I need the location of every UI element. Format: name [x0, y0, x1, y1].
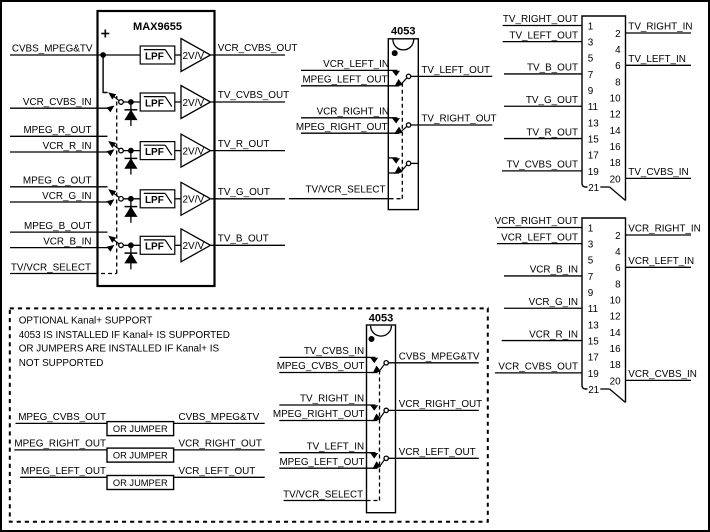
- node junction ch5: [129, 243, 134, 248]
- diode D3 clamp: [130, 199, 132, 223]
- wire top throw input switch U2S2: [301, 117, 397, 119]
- svg-text:8: 8: [615, 279, 621, 290]
- svg-text:MPEG_CVBS_OUT: MPEG_CVBS_OUT: [18, 412, 106, 423]
- amplifier A2 2V/V: [181, 86, 211, 119]
- svg-text:4053: 4053: [369, 313, 393, 325]
- switch U3S1 top throw arrow: [371, 358, 377, 362]
- svg-text:MPEG_LEFT_OUT: MPEG_LEFT_OUT: [21, 466, 106, 477]
- wire CVBS_MPEG&TV input: [10, 54, 140, 56]
- svg-text:4: 4: [615, 247, 621, 258]
- wire TV_R_OUT to J1 pin 15: [504, 138, 582, 140]
- switch U3S2 bottom throw arrow: [373, 414, 380, 420]
- wire VCR_RIGHT_OUT to J2 pin 1: [497, 227, 582, 229]
- svg-text:MPEG_RIGHT_OUT: MPEG_RIGHT_OUT: [273, 409, 365, 420]
- svg-text:TV_LEFT_IN: TV_LEFT_IN: [628, 54, 686, 65]
- IC U3 pin1 dot: [369, 337, 374, 342]
- wire TV/VCR_SELECT U1: [10, 273, 94, 275]
- svg-text:19: 19: [588, 369, 599, 380]
- svg-text:14: 14: [610, 126, 621, 137]
- wire VCR_B_IN: [10, 247, 112, 249]
- amplifier A4 2V/V: [181, 182, 211, 215]
- switch S3 pole circle: [119, 148, 124, 153]
- svg-text:VCR_G_IN: VCR_G_IN: [42, 191, 91, 202]
- wire bottom throw input switch U3S2: [279, 420, 377, 422]
- svg-text:TV_LEFT_OUT: TV_LEFT_OUT: [509, 30, 578, 41]
- svg-text:4: 4: [615, 45, 621, 56]
- low-pass filter LPF4: [140, 190, 175, 208]
- svg-text:TV_G_OUT: TV_G_OUT: [526, 95, 578, 106]
- wire CVBS_MPEG&TV from jumper JP1: [174, 422, 265, 424]
- wire bottom throw input switch U3S3: [279, 467, 377, 469]
- svg-text:MPEG_CVBS_OUT: MPEG_CVBS_OUT: [277, 361, 365, 372]
- IC U3 notch semicircle: [371, 326, 392, 336]
- wire bottom throw input switch U2S2: [301, 132, 399, 134]
- svg-text:VCR_B_IN: VCR_B_IN: [43, 236, 91, 247]
- wire VCR_B_IN to J2 pin 7: [504, 275, 582, 277]
- svg-text:VCR_CVBS_IN: VCR_CVBS_IN: [628, 369, 697, 380]
- amplifier A1 2V/V: [181, 39, 211, 72]
- svg-text:VCR_LEFT_IN: VCR_LEFT_IN: [323, 59, 389, 70]
- switch U3S1 bottom throw arrow: [373, 367, 380, 373]
- wire output TV_G_OUT: [211, 198, 285, 200]
- wire MPEG_R_OUT: [10, 135, 108, 137]
- switch U3S3 top throw arrow: [371, 454, 377, 458]
- wire output TV_CVBS_OUT: [211, 101, 285, 103]
- switch U2S3 top throw arrow: [393, 159, 399, 163]
- switch U3S3 pole line: [380, 460, 384, 466]
- svg-text:6: 6: [615, 263, 621, 274]
- svg-text:MPEG_B_OUT: MPEG_B_OUT: [24, 221, 92, 232]
- switch U2S2 pole line: [402, 126, 407, 130]
- node junction ch4: [129, 196, 134, 201]
- svg-text:TV_LEFT_IN: TV_LEFT_IN: [307, 441, 365, 452]
- svg-text:7: 7: [588, 70, 594, 81]
- wire MPEG_B_OUT: [10, 231, 108, 233]
- wire VCR_CVBS_IN: [10, 107, 112, 109]
- svg-text:9: 9: [588, 86, 594, 97]
- switch U3S1 pole circle: [384, 361, 388, 365]
- wire switch S4 pole to node: [123, 198, 140, 200]
- low-pass filter LPF2: [140, 93, 175, 111]
- wire top throw input switch U2S1: [301, 69, 397, 71]
- jumper JP3 OR JUMPER box: [107, 476, 174, 490]
- svg-text:6: 6: [615, 61, 621, 72]
- wire TV_LEFT_IN from J1 pin 6: [626, 64, 692, 66]
- switch S5 pole circle: [119, 243, 124, 248]
- control dashed line U1 select: [94, 273, 117, 275]
- svg-text:1: 1: [588, 223, 594, 234]
- wire VCR_RIGHT_OUT from jumper JP2: [174, 449, 265, 451]
- low-pass filter LPF3: [140, 142, 175, 160]
- svg-text:5: 5: [588, 256, 594, 267]
- wire bottom throw input switch U3S1: [279, 372, 377, 374]
- svg-text:LPF: LPF: [145, 195, 164, 206]
- svg-text:VCR_RIGHT_OUT: VCR_RIGHT_OUT: [179, 439, 262, 450]
- svg-text:15: 15: [588, 134, 599, 145]
- wire VCR_G_IN: [10, 201, 112, 203]
- svg-text:VCR_CVBS_IN: VCR_CVBS_IN: [23, 97, 92, 108]
- svg-text:TV_G_OUT: TV_G_OUT: [218, 187, 270, 198]
- svg-text:TV_RIGHT_IN: TV_RIGHT_IN: [300, 394, 364, 405]
- svg-text:13: 13: [588, 320, 599, 331]
- switch U2S1 pole circle: [406, 74, 410, 78]
- svg-text:VCR_LEFT_OUT: VCR_LEFT_OUT: [399, 447, 476, 458]
- switch U2S3 bottom throw arrow: [395, 167, 402, 173]
- svg-text:TV_RIGHT_IN: TV_RIGHT_IN: [628, 22, 692, 33]
- wire top throw input switch U3S2: [279, 404, 375, 406]
- svg-text:15: 15: [588, 336, 599, 347]
- node junction ch2: [129, 100, 134, 105]
- switch S2 bottom throw arrow: [107, 106, 113, 111]
- svg-text:TV_R_OUT: TV_R_OUT: [526, 127, 578, 138]
- switch U2S1 top throw arrow: [393, 71, 399, 75]
- switch U2S2 top throw arrow: [393, 119, 399, 123]
- svg-text:NOT SUPPORTED: NOT SUPPORTED: [19, 358, 104, 369]
- switch U3S2 pole line: [380, 412, 384, 418]
- connector J2 outline: [582, 218, 626, 403]
- wire LPF3 to amplifier A3: [175, 150, 181, 152]
- wire drop from CVBS junction to switch S2: [103, 55, 107, 93]
- switch U3S3 pole circle: [384, 456, 388, 460]
- svg-text:TV_RIGHT_OUT: TV_RIGHT_OUT: [503, 14, 578, 25]
- svg-text:VCR_LEFT_IN: VCR_LEFT_IN: [628, 256, 694, 267]
- wire TV_G_OUT to J1 pin 11: [504, 105, 582, 107]
- svg-text:VCR_CVBS_OUT: VCR_CVBS_OUT: [498, 362, 578, 373]
- svg-text:MAX9655: MAX9655: [133, 21, 182, 33]
- svg-text:5: 5: [588, 54, 594, 65]
- jumper JP2 OR JUMPER box: [107, 448, 174, 462]
- svg-text:12: 12: [610, 312, 621, 323]
- IC U2 4053 body: [388, 39, 418, 210]
- svg-text:21: 21: [588, 183, 599, 194]
- svg-text:TV/VCR_SELECT: TV/VCR_SELECT: [283, 490, 363, 501]
- svg-text:2V/V: 2V/V: [183, 146, 205, 157]
- wire TV_LEFT_OUT to J1 pin 3: [503, 41, 582, 43]
- low-pass filter LPF1: [140, 46, 175, 64]
- svg-text:9: 9: [588, 288, 594, 299]
- svg-text:MPEG_RIGHT_OUT: MPEG_RIGHT_OUT: [296, 122, 388, 133]
- switch S5 pole line to top throw: [112, 238, 120, 244]
- svg-text:VCR_R_IN: VCR_R_IN: [43, 141, 92, 152]
- wire TV_RIGHT_IN from J1 pin 2: [626, 32, 692, 34]
- svg-text:VCR_LEFT_OUT: VCR_LEFT_OUT: [501, 232, 578, 243]
- switch S3 top throw arrow: [109, 142, 115, 147]
- wire LPF5 to amplifier A5: [175, 244, 181, 246]
- wire VCR_CVBS_OUT to J2 pin 19: [495, 372, 582, 374]
- switch U3S2 top throw arrow: [371, 406, 377, 410]
- switch U2S1 pole line: [402, 78, 407, 84]
- svg-text:MPEG_RIGHT_OUT: MPEG_RIGHT_OUT: [14, 439, 106, 450]
- IC U2 pin1 dot: [392, 51, 397, 56]
- switch S2 pole circle: [119, 100, 124, 105]
- switch S2 pole line to top throw: [112, 95, 120, 101]
- svg-text:OR JUMPER: OR JUMPER: [113, 451, 168, 461]
- svg-text:TV_CVBS_OUT: TV_CVBS_OUT: [507, 160, 578, 171]
- wire LPF4 to amplifier A4: [175, 198, 181, 200]
- amplifier A3 2V/V: [181, 134, 211, 167]
- wire MPEG_LEFT_OUT to jumper JP3: [20, 476, 107, 478]
- switch U2S3 pole circle: [406, 161, 410, 165]
- switch S4 pole circle: [119, 197, 124, 202]
- wire TV_RIGHT_OUT to J1 pin 1: [503, 25, 582, 27]
- svg-text:LPF: LPF: [145, 242, 164, 253]
- wire top throw input switch U3S3: [279, 452, 375, 454]
- wire MPEG_CVBS_OUT to jumper JP1: [16, 422, 108, 424]
- switch U3S3 bottom throw arrow: [373, 462, 380, 468]
- wire output VCR_CVBS_OUT: [211, 54, 285, 56]
- svg-text:MPEG_R_OUT: MPEG_R_OUT: [23, 125, 91, 136]
- svg-text:LPF: LPF: [145, 147, 164, 158]
- svg-text:VCR_RIGHT_IN: VCR_RIGHT_IN: [628, 224, 700, 235]
- svg-text:TV_B_OUT: TV_B_OUT: [218, 234, 269, 245]
- svg-text:LPF: LPF: [145, 98, 164, 109]
- jumper JP1 OR JUMPER box: [107, 422, 174, 436]
- switch S5 top throw arrow: [109, 236, 115, 241]
- svg-text:TV_CVBS_OUT: TV_CVBS_OUT: [218, 90, 289, 101]
- svg-text:4053 IS INSTALLED IF Kanal+ IS: 4053 IS INSTALLED IF Kanal+ IS SUPPORTED: [19, 330, 230, 341]
- svg-text:17: 17: [588, 353, 599, 364]
- svg-text:2V/V: 2V/V: [183, 51, 205, 62]
- wire switch S5 pole to node: [123, 244, 140, 246]
- diode D2 clamp: [130, 151, 132, 175]
- switch U2S1 bottom throw arrow: [395, 80, 402, 86]
- svg-text:3: 3: [588, 240, 594, 251]
- svg-text:VCR_B_IN: VCR_B_IN: [530, 265, 578, 276]
- wire LPF2 to amplifier A2: [175, 101, 181, 103]
- wire switch S3 pole to node: [123, 150, 140, 152]
- svg-text:MPEG_G_OUT: MPEG_G_OUT: [23, 176, 92, 187]
- svg-text:TV_B_OUT: TV_B_OUT: [527, 63, 578, 74]
- control dashed line U3 select: [367, 500, 380, 502]
- svg-text:MPEG_LEFT_OUT: MPEG_LEFT_OUT: [302, 75, 387, 86]
- wire output TV_B_OUT: [211, 244, 285, 246]
- svg-text:OR JUMPER: OR JUMPER: [113, 424, 168, 434]
- switch S4 top throw arrow: [109, 190, 115, 195]
- svg-text:8: 8: [615, 77, 621, 88]
- control dashed line U2 select: [390, 198, 403, 200]
- svg-text:18: 18: [610, 360, 621, 371]
- wire TV_RIGHT_OUT from U2: [411, 124, 493, 126]
- svg-text:VCR_G_IN: VCR_G_IN: [529, 297, 578, 308]
- wire output TV_R_OUT: [211, 150, 285, 152]
- svg-text:TV/VCR_SELECT: TV/VCR_SELECT: [11, 263, 91, 274]
- switch S5 bottom throw arrow: [107, 246, 113, 251]
- wire top throw input switch U3S1: [279, 356, 375, 358]
- svg-text:16: 16: [610, 344, 621, 355]
- svg-text:TV/VCR_SELECT: TV/VCR_SELECT: [305, 184, 385, 195]
- switch U3S1 pole line: [380, 364, 384, 370]
- wire VCR_G_IN to J2 pin 11: [504, 307, 582, 309]
- svg-text:VCR_RIGHT_OUT: VCR_RIGHT_OUT: [495, 216, 578, 227]
- svg-text:4053: 4053: [391, 26, 415, 38]
- IC U3 4053 body: [367, 325, 396, 513]
- svg-text:VCR_R_IN: VCR_R_IN: [529, 329, 578, 340]
- wire VCR_CVBS_IN from J2 pin 20: [626, 379, 692, 381]
- svg-text:3: 3: [588, 38, 594, 49]
- wire TV_LEFT_OUT from U2: [411, 75, 493, 77]
- svg-text:LPF: LPF: [145, 51, 164, 62]
- svg-text:OR JUMPERS ARE INSTALLED IF Ka: OR JUMPERS ARE INSTALLED IF Kanal+ IS: [19, 344, 220, 355]
- node junction on CVBS_MPEG&TV: [101, 53, 106, 58]
- wire switch S2 pole to node: [123, 101, 140, 103]
- svg-text:7: 7: [588, 272, 594, 283]
- wire bottom throw input switch U2S1: [301, 85, 399, 87]
- switch S3 bottom throw arrow: [107, 150, 113, 155]
- switch U3S2 pole circle: [384, 408, 388, 412]
- switch U2S3 pole line: [402, 165, 407, 171]
- wire VCR_LEFT_OUT to J2 pin 3: [497, 243, 582, 245]
- switch U2S2 pole circle: [406, 123, 410, 127]
- svg-text:20: 20: [610, 174, 621, 185]
- svg-text:TV_CVBS_IN: TV_CVBS_IN: [628, 167, 688, 178]
- optional Kanal+ dashed boundary box: [10, 308, 488, 521]
- svg-text:CVBS_MPEG&TV: CVBS_MPEG&TV: [399, 352, 480, 363]
- switch S2 top throw arrow: [109, 93, 115, 98]
- low-pass filter LPF5: [140, 236, 175, 254]
- svg-text:11: 11: [588, 304, 599, 315]
- svg-text:TV_RIGHT_OUT: TV_RIGHT_OUT: [421, 114, 496, 125]
- svg-text:CVBS_MPEG&TV: CVBS_MPEG&TV: [12, 44, 93, 55]
- svg-text:13: 13: [588, 118, 599, 129]
- svg-text:VCR_RIGHT_IN: VCR_RIGHT_IN: [317, 107, 389, 118]
- polarity mark + inside U1: [101, 33, 109, 35]
- wire TV_B_OUT to J1 pin 7: [504, 73, 582, 75]
- svg-text:10: 10: [610, 296, 621, 307]
- wire VCR_LEFT_OUT from jumper JP3: [174, 476, 265, 478]
- svg-text:16: 16: [610, 142, 621, 153]
- wire VCR_R_IN to J2 pin 15: [502, 340, 582, 342]
- svg-text:18: 18: [610, 158, 621, 169]
- svg-text:CVBS_MPEG&TV: CVBS_MPEG&TV: [179, 412, 260, 423]
- wire LPF1 to amplifier A1: [175, 54, 181, 56]
- svg-text:2: 2: [615, 29, 621, 40]
- wire TV_CVBS_IN from J1 pin 20: [626, 177, 692, 179]
- node junction ch3: [129, 148, 134, 153]
- svg-text:2V/V: 2V/V: [183, 241, 205, 252]
- svg-text:2V/V: 2V/V: [183, 195, 205, 206]
- wire TV/VCR_SELECT U3: [284, 500, 367, 502]
- IC U1 MAX9655 body: [98, 11, 215, 286]
- stub top throw switch U2S3: [388, 157, 397, 159]
- svg-text:20: 20: [610, 376, 621, 387]
- wire VCR_RIGHT_IN from J2 pin 2: [626, 234, 692, 236]
- wire MPEG_G_OUT: [10, 186, 108, 188]
- svg-text:TV_LEFT_OUT: TV_LEFT_OUT: [421, 65, 490, 76]
- svg-text:2: 2: [615, 231, 621, 242]
- wire VCR_RIGHT_OUT from U3: [388, 409, 478, 411]
- svg-text:12: 12: [610, 110, 621, 121]
- wire VCR_LEFT_OUT from U3: [388, 457, 478, 459]
- svg-text:MPEG_LEFT_OUT: MPEG_LEFT_OUT: [279, 457, 364, 468]
- svg-text:11: 11: [588, 102, 599, 113]
- wire VCR_R_IN: [10, 151, 112, 153]
- svg-text:OPTIONAL Kanal+ SUPPORT: OPTIONAL Kanal+ SUPPORT: [19, 316, 153, 327]
- svg-text:TV_R_OUT: TV_R_OUT: [218, 139, 270, 150]
- svg-text:2V/V: 2V/V: [183, 98, 205, 109]
- svg-text:VCR_RIGHT_OUT: VCR_RIGHT_OUT: [399, 399, 482, 410]
- diode D4 clamp: [130, 245, 132, 269]
- amplifier A5 2V/V: [181, 229, 211, 262]
- stub bottom throw switch U2S3: [388, 172, 399, 174]
- svg-text:OR JUMPER: OR JUMPER: [113, 478, 168, 488]
- connector J1 outline: [582, 16, 626, 201]
- svg-text:TV_CVBS_IN: TV_CVBS_IN: [304, 346, 364, 357]
- svg-text:1: 1: [588, 21, 594, 32]
- IC U2 notch semicircle: [393, 40, 414, 50]
- svg-text:21: 21: [588, 385, 599, 396]
- wire MPEG_RIGHT_OUT to jumper JP2: [14, 449, 107, 451]
- svg-text:17: 17: [588, 151, 599, 162]
- stub output switch U2S3: [411, 162, 419, 164]
- svg-text:VCR_CVBS_OUT: VCR_CVBS_OUT: [218, 43, 298, 54]
- diode D1 clamp: [130, 102, 132, 126]
- switch S3 pole line to top throw: [112, 143, 120, 149]
- wire TV_CVBS_OUT to J1 pin 19: [502, 170, 582, 172]
- wire TV/VCR_SELECT U2: [289, 198, 390, 200]
- wire CVBS_MPEG&TV from U3: [388, 362, 478, 364]
- svg-text:VCR_LEFT_OUT: VCR_LEFT_OUT: [179, 466, 256, 477]
- switch S4 bottom throw arrow: [107, 200, 113, 205]
- switch S4 pole line to top throw: [112, 192, 120, 198]
- wire VCR_LEFT_IN from J2 pin 6: [626, 266, 692, 268]
- svg-text:14: 14: [610, 328, 621, 339]
- svg-text:10: 10: [610, 94, 621, 105]
- switch U2S2 bottom throw arrow: [395, 128, 402, 134]
- svg-text:19: 19: [588, 167, 599, 178]
